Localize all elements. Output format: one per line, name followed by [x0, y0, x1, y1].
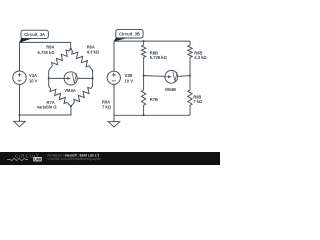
svg-text:5.728 kΩ: 5.728 kΩ	[38, 50, 56, 55]
svg-text:circuitlab.com/c/89hfyk5nwre6p: circuitlab.com/c/89hfyk5nwre6pdq2wr	[48, 157, 102, 161]
svg-text:LAB: LAB	[34, 158, 42, 162]
svg-text:R8A: R8A	[46, 45, 54, 50]
svg-text:10 V: 10 V	[29, 79, 38, 84]
svg-text:4.3 kΩ: 4.3 kΩ	[194, 55, 207, 60]
svg-text:R7B: R7B	[150, 97, 158, 102]
svg-text:variable Ω: variable Ω	[37, 105, 58, 110]
svg-text:5.728 kΩ: 5.728 kΩ	[150, 55, 168, 60]
svg-text:7 kΩ: 7 kΩ	[193, 99, 203, 104]
svg-text:4.3 kΩ: 4.3 kΩ	[87, 49, 100, 54]
svg-text:7 kΩ: 7 kΩ	[102, 105, 112, 110]
svg-text:Circuit_3A: Circuit_3A	[24, 32, 45, 37]
svg-text:V3A: V3A	[29, 73, 37, 78]
svg-text:V3B: V3B	[125, 73, 133, 78]
svg-text:10 V: 10 V	[125, 79, 134, 84]
svg-text:VM4A: VM4A	[64, 88, 75, 93]
svg-text:Circuit_3B: Circuit_3B	[119, 32, 140, 37]
svg-text:VM4B: VM4B	[165, 87, 176, 92]
